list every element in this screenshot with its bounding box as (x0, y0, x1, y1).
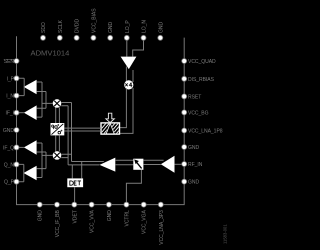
VVA control arrow (106, 113, 114, 122)
svg-text:VCC_LNA_1P8: VCC_LNA_1P8 (188, 129, 223, 135)
svg-text:Q_N: Q_N (4, 162, 15, 168)
pin dot VDET (72, 202, 77, 207)
wire pair VGA to LNA (143, 160, 163, 164)
wires mixer Q to Q amps (ladder) (37, 143, 53, 178)
wires Q amp outputs to Q_N / Q_P (17, 164, 24, 181)
svg-text:VCC_QUAD: VCC_QUAD (188, 59, 216, 65)
pin dot I_P (14, 76, 19, 81)
top pin LO_N (142, 20, 148, 33)
right pin GND 2 (188, 180, 199, 186)
DET power detector (67, 178, 83, 187)
pin dot SEN (14, 59, 19, 64)
top pin GND (108, 22, 114, 33)
pin dot VCC_BIAS (91, 35, 96, 40)
svg-text:SDO: SDO (41, 22, 47, 33)
pin dot DIS_RBIAS (182, 76, 187, 81)
bottom pin VCC_IF_BB (55, 210, 61, 238)
pin dot GND bottom 2 (106, 202, 111, 207)
pin dot GND top (108, 35, 113, 40)
top pin DVDD (75, 18, 81, 33)
bottom pin VDET (72, 210, 78, 223)
mixer Q (53, 151, 62, 160)
left pin GND (3, 128, 14, 134)
svg-text:GND: GND (38, 210, 44, 221)
LO buffer amp (down-pointing) (121, 57, 137, 70)
svg-text:GND: GND (188, 145, 199, 151)
pin dot IF_Q (14, 145, 19, 150)
svg-text:I_N: I_N (6, 94, 14, 100)
bottom pin VCC_VVA (90, 210, 96, 234)
top pin VCC_BIAS (91, 8, 97, 33)
RF VGA (gain arrow box) (133, 159, 143, 170)
wire LO_P to LO amp (126, 39, 128, 57)
right pin RSET (188, 94, 201, 100)
wire pair x4 to LO VVA (120, 88, 133, 133)
right pin GND (188, 145, 199, 151)
pin dot DVDD (74, 35, 79, 40)
chip outline ADMV1014 (17, 36, 185, 204)
pin dot IF_I (14, 110, 19, 115)
pin dot Q_N (14, 162, 19, 167)
svg-text:Q_P: Q_P (4, 180, 15, 186)
pin dot VCC_QUAD (182, 59, 187, 64)
bottom pin VCTRL (124, 210, 130, 227)
svg-text:DVDD: DVDD (75, 18, 81, 33)
top pin SDO (41, 22, 47, 33)
right pin VCC_BG (188, 110, 209, 116)
pin dot SDO (41, 35, 46, 40)
pin dot VCC_LNA_3P3 (158, 202, 163, 207)
svg-text:GND: GND (107, 210, 113, 221)
x4 LO multiplier (124, 80, 133, 89)
pin dot Q_P (14, 179, 19, 184)
top pin CSB (158, 22, 164, 33)
wire RF_IN to LNA (174, 163, 184, 165)
wire LO_N to LO amp (133, 39, 144, 57)
svg-text:VCC_BIAS: VCC_BIAS (91, 8, 97, 33)
left pin Q_P (4, 180, 15, 186)
svg-text:IF_I: IF_I (6, 111, 15, 117)
left pin IF_Q (3, 145, 14, 151)
pin dots overlay (14, 35, 187, 207)
svg-text:LO_N: LO_N (142, 20, 148, 33)
IF_I amp (24, 105, 37, 120)
svg-text:VCC_VVA: VCC_VVA (90, 210, 96, 234)
svg-text:LO_P: LO_P (125, 20, 131, 33)
svg-text:RF_IN: RF_IN (188, 162, 203, 168)
bottom pin GND (38, 210, 44, 221)
RF input LNA (161, 156, 175, 173)
svg-text:DIS_RBIAS: DIS_RBIAS (188, 77, 215, 83)
pin dot RF_IN (182, 162, 187, 167)
wire DET to VDET pin (74, 187, 76, 204)
left pin Q_N (4, 162, 15, 168)
svg-text:VCC_VGA: VCC_VGA (142, 210, 148, 234)
svg-text:GND: GND (158, 22, 164, 33)
pin dot I_N (14, 93, 19, 98)
wire DET taps from RF lines (72, 162, 81, 179)
wire pairs phase splitter to mixers (56, 107, 60, 151)
I baseband amp (24, 80, 37, 95)
svg-text:VCC_BG: VCC_BG (188, 110, 209, 116)
svg-text:GND: GND (3, 128, 14, 134)
svg-text:I_P: I_P (7, 76, 15, 82)
LO variable attenuator (hatched) (97, 122, 126, 138)
svg-text:SCLK: SCLK (58, 19, 64, 33)
pin dot VCC_VVA (89, 202, 94, 207)
pin dot GND right (182, 145, 187, 150)
svg-text:GND: GND (188, 180, 199, 186)
bottom pin VCC_LNA_3P3 (159, 210, 165, 245)
svg-text:RSET: RSET (188, 94, 201, 100)
pin dot VCTRL (124, 202, 129, 207)
left pin SEN (active low) (4, 59, 15, 65)
svg-text:VCC_LNA_3P3: VCC_LNA_3P3 (159, 210, 165, 245)
svg-text:11583-001: 11583-001 (223, 224, 228, 244)
svg-text:VDET: VDET (72, 210, 78, 223)
top pin LO_P (125, 20, 131, 33)
pin dot GND left (14, 128, 19, 133)
wire IF_I amp output (17, 112, 24, 114)
top pin SCLK (58, 19, 64, 33)
pin dot RSET (182, 94, 187, 99)
IF_Q amp (24, 140, 37, 155)
svg-text:ADMV1014: ADMV1014 (31, 49, 70, 58)
pin dot LO_P (124, 35, 129, 40)
bottom pin GND 2 (107, 210, 113, 221)
bottom pin VCC_VGA (142, 210, 148, 234)
pin dot VCC_LNA_1P8 (182, 128, 187, 133)
Q baseband amp (24, 166, 37, 181)
svg-text:VCTRL: VCTRL (124, 210, 130, 227)
pin dot VCC_IF_BB (55, 202, 60, 207)
wire VGA control to VCTRL pin (126, 170, 141, 204)
pin dot LO_N (141, 35, 146, 40)
pin dot GND right 2 (182, 179, 187, 184)
left pin IF_I (6, 111, 15, 117)
pin dot SCLK (57, 35, 62, 40)
left pin I_N (6, 94, 14, 100)
wire IF_Q amp output (17, 146, 24, 148)
svg-text:VCC_IF_BB: VCC_IF_BB (55, 210, 61, 238)
RF amp (100, 158, 116, 172)
svg-text:IF_Q: IF_Q (3, 145, 14, 151)
RF differential bus mixers to RF amp (61, 103, 104, 165)
mixer I (53, 99, 62, 108)
pin dot GND bottom (37, 202, 42, 207)
wire pair LO amp to x4 (126, 67, 133, 83)
svg-text:GND: GND (108, 22, 114, 33)
pin dot VCC_VGA (141, 202, 146, 207)
right pin DIS_RBIAS (188, 77, 215, 83)
right pin VCC_LNA_1P8 (188, 129, 223, 135)
wires mixer I to I amps (ladder) (37, 82, 53, 117)
right pin RF_IN (188, 162, 203, 168)
right pin VCC_QUAD (188, 59, 216, 65)
wires I amp outputs to I_P / I_N (17, 78, 25, 95)
left pin I_P (7, 76, 15, 82)
90/0 phase splitter (51, 123, 65, 135)
svg-text:SEN: SEN (4, 59, 15, 65)
wire pair VVA to 90/0 phase splitter (64, 128, 101, 131)
pin dot VCC_BG (182, 110, 187, 115)
wire pair RF amp to VGA (115, 160, 133, 165)
pin dot GND top right (158, 35, 163, 40)
